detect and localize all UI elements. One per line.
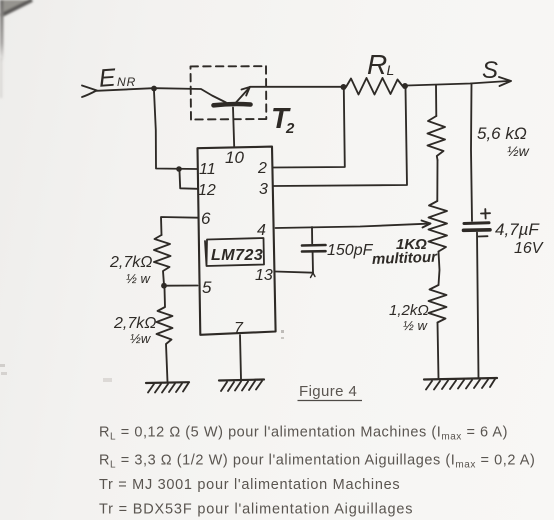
wire 5.6k to pot [436,160,438,201]
wire pot to 1.2k [439,252,440,286]
ground middle [219,380,264,392]
potentiometer wiper arrow [422,221,431,228]
IC U1 LM723 body [198,147,276,335]
svg-text:S: S [482,57,498,84]
wire pin3 riser [274,88,408,186]
junction 150pF and pin 13 [311,273,316,278]
svg-text:2: 2 [285,120,295,137]
svg-text:10: 10 [225,148,244,167]
junction at pin 11 branch [176,166,182,172]
wire pin13 to cap [276,272,314,273]
svg-text:½w: ½w [130,331,152,346]
svg-text:2: 2 [257,160,267,177]
svg-text:150pF: 150pF [327,242,374,259]
label 2.7k upper [109,254,152,286]
wire pin6 to divider [161,217,198,235]
wire input E_NR arrow [82,86,153,98]
svg-text:6: 6 [201,209,211,228]
wire RL to output S [407,81,508,86]
wire junction down to pin 11 [154,91,198,169]
svg-text:16V: 16V [514,240,544,257]
svg-text:½ w: ½ w [403,318,428,333]
svg-text:12: 12 [198,182,216,199]
resistor 1.2k [429,285,447,323]
svg-text:Tr = MJ 3001 pour l'alimenta: Tr = MJ 3001 pour l'alimentation Machine… [99,477,400,493]
wire top rail to 5.6k chain [435,85,437,116]
label 1.2k [389,302,429,333]
junction pin5 divider tap [161,283,167,289]
svg-text:11: 11 [199,161,216,178]
potentiometer 1k multitour [429,201,448,252]
svg-text:13: 13 [255,267,273,284]
svg-text:NR: NR [117,75,136,89]
resistor 2.7k lower [157,288,173,382]
svg-text:RL = 3,3 Ω (1/2 W) pour l'alim: RL = 3,3 Ω (1/2 W) pour l'alimentation A… [99,453,535,471]
label LM723 [205,238,264,266]
label 4.7uF 16V [495,220,544,257]
wire 1.2k to ground [438,323,439,379]
svg-text:2,7kΩ: 2,7kΩ [113,315,156,332]
svg-text:1,2kΩ: 1,2kΩ [389,302,429,319]
svg-text:5,6 kΩ: 5,6 kΩ [477,124,527,143]
label Tr [271,103,295,137]
label 5.6k [477,124,530,159]
resistor RL [346,78,403,95]
svg-text:E: E [98,64,117,93]
label Figure 4 [298,383,363,401]
resistor 5.6k [428,116,446,160]
capacitor 150pF [302,227,326,273]
svg-text:7: 7 [234,320,244,337]
node S label [482,57,498,84]
resistor 2.7k upper [154,235,171,285]
ground right [424,378,497,390]
ground left [146,382,189,392]
node E_NR label [98,64,136,93]
svg-text:R: R [367,49,387,80]
junction left of RL [341,84,347,90]
transistor Tr [191,66,267,147]
svg-text:L: L [387,62,395,78]
junction at input node [151,86,157,92]
svg-text:4: 4 [257,222,266,239]
svg-text:5: 5 [202,278,212,297]
wire branch down to pin 12 [180,171,198,189]
label 2.7k lower [113,315,156,346]
wire input node to transistor collector [156,88,226,102]
label RL [367,49,394,80]
wire tap to pin 5 [166,285,198,287]
svg-text:Tr = BDX53F pour l'alimentat: Tr = BDX53F pour l'alimentation Aiguilla… [99,502,413,518]
wire top rail to 4.7uF [471,84,472,222]
svg-text:LM723: LM723 [211,247,263,264]
svg-text:Figure 4: Figure 4 [299,383,357,400]
svg-text:RL = 0,12 Ω (5 W) pour l'alime: RL = 0,12 Ω (5 W) pour l'alimentation Ma… [99,425,508,443]
svg-text:½w: ½w [507,143,530,159]
junction right of RL [402,83,408,89]
node S output arrow [499,77,511,86]
svg-text:3: 3 [259,181,268,198]
svg-text:4,7µF: 4,7µF [495,220,540,239]
wire pin7 to ground [240,335,241,379]
svg-text:multitour: multitour [372,249,439,268]
wire pin4 to wiper [276,224,428,228]
label 1k multitour [372,236,439,268]
svg-text:2,7kΩ: 2,7kΩ [109,254,152,271]
wire transistor emitter to RL [250,86,343,88]
capacitor 4.7uF polarized [464,209,491,379]
svg-text:½ w: ½ w [126,271,151,286]
wire pin2 riser [273,89,345,168]
